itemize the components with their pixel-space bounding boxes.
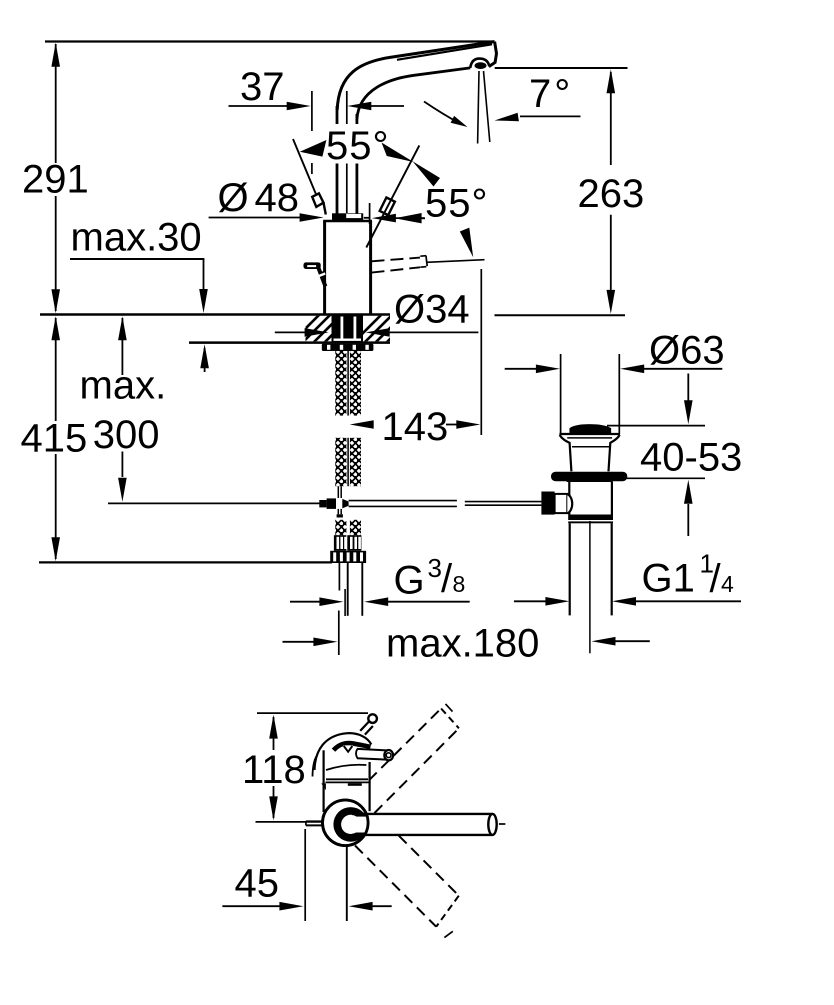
svg-text:G1: G1 [642, 557, 695, 601]
spout end face [489, 42, 497, 67]
7 degree pointer right [520, 115, 581, 117]
svg-text:55°: 55° [326, 124, 390, 168]
45 left reference line [304, 829, 306, 921]
svg-text:4: 4 [721, 571, 734, 597]
dim 37 [229, 105, 289, 107]
svg-text:max.180: max.180 [386, 622, 539, 666]
faucet centerline extension [346, 91, 348, 129]
top view: handle dome [315, 733, 372, 770]
svg-text:/: / [710, 557, 722, 601]
horizontal pull rod to waste [349, 500, 457, 502]
top view: lever bar horizontal [351, 817, 493, 833]
top view: lever ball joint dark ring [333, 807, 368, 842]
dim D63 [505, 368, 538, 370]
40-53 reference lines [607, 425, 705, 427]
top view: dome thick edge [334, 743, 371, 750]
svg-text:max.: max. [80, 364, 167, 408]
hose end fittings [334, 535, 347, 551]
top view: pull rod below [346, 846, 348, 921]
55deg left leader arrow [300, 140, 327, 157]
svg-text:7°: 7° [529, 72, 573, 116]
waste funnel sides [560, 435, 572, 471]
water stream lines [478, 71, 479, 144]
svg-text:G: G [394, 558, 425, 602]
angle arc bowtie arrows [382, 143, 414, 163]
pull rod lower end [338, 563, 340, 591]
263 bottom reference line (deck level right) [495, 314, 626, 316]
svg-text:Ø: Ø [218, 176, 249, 220]
svg-text:291: 291 [22, 158, 89, 202]
supply hoses (braided) [335, 351, 346, 416]
G3/8 connector pipes [347, 563, 349, 616]
rod ball joint connector [541, 492, 554, 515]
mounting shank through deck [332, 315, 364, 342]
max.30 leader line [70, 258, 204, 260]
waste plug cap [570, 425, 610, 432]
spout vertical pipe [336, 106, 339, 214]
top view: lever stub [357, 749, 390, 751]
svg-text:55°: 55° [425, 182, 489, 226]
dim max.180 [283, 641, 315, 643]
263 top reference line [495, 67, 628, 69]
svg-text:40-53: 40-53 [640, 435, 742, 479]
countertop deck bottom line [189, 341, 390, 344]
spout outer profile [337, 42, 494, 110]
top reference line (spout tip level) [45, 40, 495, 42]
countertop deck top line [40, 313, 390, 316]
svg-text:48: 48 [255, 176, 300, 220]
dim 40-53 arrows [687, 374, 689, 402]
pull rod upper stub [337, 486, 339, 498]
max.30 lower arrow (below deck) [204, 348, 206, 372]
dim G3/8 [290, 601, 320, 603]
top view: lever bar dashed (down position) [399, 836, 459, 896]
dim 143 [350, 420, 374, 429]
55deg right dim line [412, 217, 425, 219]
svg-text:8: 8 [453, 571, 466, 597]
dim 263 vertical line [610, 72, 612, 165]
aerator dome [470, 59, 489, 68]
waste upper tube [567, 480, 613, 482]
waste tail pipe G1 1/4 [569, 523, 571, 615]
cartridge dark band [332, 213, 363, 221]
svg-text:Ø63: Ø63 [649, 329, 725, 373]
rod lower stub [337, 509, 339, 514]
dim D48 [209, 217, 300, 219]
svg-text:max.30: max.30 [71, 215, 202, 259]
spout outlet axis extension line [480, 269, 482, 435]
dim D34 [275, 331, 305, 333]
handle horizontal dashed outline [372, 258, 421, 262]
svg-text:300: 300 [93, 413, 160, 457]
handle pull lever (left of body) [304, 262, 321, 269]
svg-text:143: 143 [382, 405, 449, 449]
svg-text:3: 3 [428, 553, 442, 583]
spout bottom / inner bend [357, 68, 470, 119]
label 55deg (left) [321, 124, 397, 164]
waste inner lines [567, 437, 612, 439]
top view: body box [323, 750, 325, 812]
handle tilted-left axis line [293, 139, 316, 194]
dashed handle axis extension [427, 260, 485, 263]
svg-text:/: / [441, 557, 453, 601]
dim 45 [222, 905, 282, 907]
bottom reference line (hose end level) [39, 561, 332, 563]
svg-text:45: 45 [235, 862, 280, 906]
handle end parallelogram (right) [380, 198, 395, 216]
waste pipe centerline [589, 521, 591, 653]
dim max.300 vertical line [121, 318, 123, 375]
waste shoulder [559, 433, 620, 435]
top view: spout arm lines [360, 721, 369, 731]
waste locknut [568, 515, 613, 521]
top view: lever bar dashed (up position) [369, 709, 441, 781]
D63 extension lines [560, 354, 562, 434]
waste flange (dark) [551, 472, 627, 482]
faucet body outline [323, 221, 326, 314]
dim 118 [273, 717, 275, 750]
aerator dark insert [475, 62, 487, 69]
55deg right leader arrow (down to dashed axis) [460, 228, 473, 258]
spout inner top line [397, 44, 492, 60]
svg-text:415: 415 [21, 416, 88, 460]
top view: wall tab [306, 820, 324, 822]
horizontal rod reference line [108, 502, 320, 504]
37 extension line left [311, 91, 313, 131]
dim 291 vertical line [55, 44, 57, 163]
rod cross fitting [327, 498, 336, 509]
svg-text:118: 118 [242, 748, 306, 792]
dim G1 1/4 [514, 600, 548, 602]
handle tilted-right axis line [366, 146, 419, 248]
dim 7 degree arc [424, 102, 461, 125]
hose collar [330, 551, 366, 563]
dim 415 vertical line [55, 318, 57, 421]
118 bottom reference line [256, 821, 324, 823]
pull rod between hoses [347, 351, 349, 416]
svg-text:Ø34: Ø34 [394, 288, 470, 332]
top view: spout tip circle [368, 714, 377, 723]
svg-text:37: 37 [240, 65, 285, 109]
handle end parallelogram (left) [312, 193, 323, 207]
118 top reference line [257, 712, 368, 714]
svg-text:263: 263 [578, 172, 645, 216]
mounting nut below deck [322, 344, 374, 351]
top view: escutcheon circle [323, 800, 369, 846]
